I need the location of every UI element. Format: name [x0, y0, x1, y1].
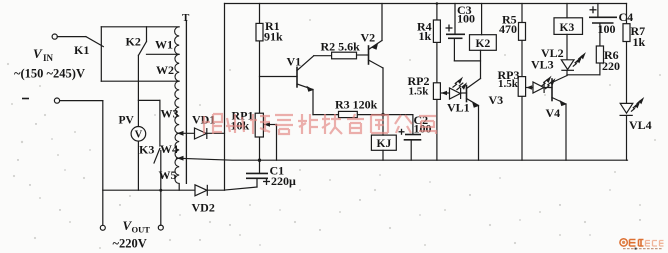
svg-text:1k: 1k: [419, 29, 432, 43]
svg-text:V1: V1: [287, 54, 302, 68]
svg-text:K3: K3: [560, 22, 575, 34]
svg-text:W4: W4: [160, 142, 178, 156]
svg-text:KJ: KJ: [377, 138, 392, 150]
svg-text:220μ: 220μ: [271, 174, 296, 188]
svg-text:V3: V3: [489, 93, 504, 107]
svg-text:V: V: [33, 46, 43, 61]
svg-text:1.5k: 1.5k: [498, 78, 519, 90]
svg-text:R2 5.6k: R2 5.6k: [321, 39, 361, 53]
svg-text:V2: V2: [361, 31, 376, 45]
svg-text:100: 100: [414, 122, 432, 136]
svg-text:VD2: VD2: [192, 201, 215, 215]
svg-text:OUT: OUT: [132, 225, 151, 235]
svg-text:W2: W2: [156, 63, 174, 77]
svg-text:220: 220: [602, 59, 620, 73]
svg-text:91k: 91k: [264, 30, 283, 44]
svg-text:K2: K2: [126, 35, 141, 49]
svg-text:~220V: ~220V: [113, 237, 147, 251]
svg-text:VL1: VL1: [447, 101, 470, 115]
svg-text:~(150 ~245)V: ~(150 ~245)V: [14, 67, 85, 81]
svg-text:100: 100: [457, 12, 475, 26]
svg-text:W3: W3: [161, 107, 179, 121]
svg-text:VL4: VL4: [629, 118, 652, 132]
svg-text:V4: V4: [546, 106, 561, 120]
svg-text:T: T: [182, 12, 190, 24]
svg-text:K3: K3: [139, 143, 154, 157]
svg-text:R3 120k: R3 120k: [335, 98, 378, 112]
svg-text:IN: IN: [43, 53, 54, 63]
svg-text:W5: W5: [159, 168, 177, 182]
svg-text:1k: 1k: [633, 35, 646, 49]
svg-text:PV: PV: [119, 115, 135, 127]
svg-text:W1: W1: [155, 38, 173, 52]
svg-text:1.5k: 1.5k: [409, 86, 430, 98]
svg-text:K1: K1: [74, 43, 89, 57]
svg-text:V: V: [135, 130, 143, 141]
svg-text:C4: C4: [619, 10, 634, 24]
svg-text:470: 470: [499, 22, 517, 36]
svg-text:K2: K2: [476, 38, 491, 50]
svg-text:VL3: VL3: [531, 58, 554, 72]
svg-text:100: 100: [598, 22, 616, 36]
